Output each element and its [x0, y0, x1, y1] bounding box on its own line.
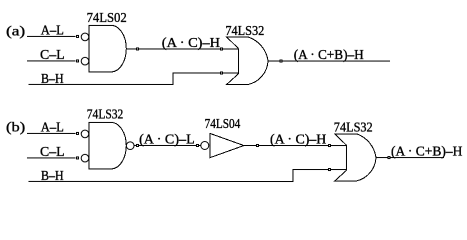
wire U5 output (b) — [376, 156, 444, 158]
pin node square A (a) — [76, 35, 78, 37]
pin node square OR input 2 (a) — [221, 72, 223, 74]
wire B input run (b) — [28, 169, 346, 181]
svg-text:(A · C)–H: (A · C)–H — [270, 133, 326, 148]
svg-text:(A · C+B)–H: (A · C+B)–H — [294, 48, 364, 63]
gate U5 OR body (b) — [335, 134, 376, 181]
gate U1 NOR as negative-AND body — [89, 25, 126, 72]
pin node square U5 input 1 — [328, 145, 330, 147]
pin node square C (a) — [76, 60, 78, 62]
svg-text:(A · C)–L: (A · C)–L — [139, 133, 195, 148]
pin node square U3 output — [136, 144, 138, 146]
wire U4 output to U5 (b) — [244, 145, 347, 147]
inverting bubble U3 output — [126, 142, 134, 150]
pin node square A (b) — [76, 132, 78, 134]
pin node square C (b) — [76, 157, 78, 159]
wire C input (a) — [27, 60, 76, 62]
svg-text:(b): (b) — [6, 121, 26, 136]
wire B input run (a) — [29, 73, 239, 85]
inverting bubble A input U3 — [81, 130, 89, 138]
gate U2 OR body (a) — [227, 37, 268, 84]
wire U1 output to U2 (a) — [126, 48, 238, 50]
pin node square U4 input — [196, 144, 198, 146]
inverting bubble C input U3 — [81, 154, 89, 162]
gate U4 inverter triangle — [210, 133, 244, 157]
svg-text:74LS32: 74LS32 — [87, 107, 124, 122]
inverting bubble C input U1a — [81, 57, 89, 65]
svg-text:(a): (a) — [6, 25, 26, 40]
svg-text:74LS32: 74LS32 — [334, 120, 373, 135]
wire C input (b) — [27, 157, 76, 159]
svg-text:74LS02: 74LS02 — [87, 11, 127, 26]
svg-text:(A · C)–H: (A · C)–H — [162, 36, 220, 51]
inverting bubble A input U1a — [81, 33, 89, 41]
pin node square U2 input 1 (a) — [221, 48, 223, 50]
wire U3 output to U4 (b) — [134, 144, 201, 146]
svg-text:74LS04: 74LS04 — [205, 117, 241, 132]
gate U3 OR as negative-AND body — [89, 122, 126, 169]
pin node square U1 output (a) — [136, 48, 138, 50]
pin node square U5 input 2 (b) — [328, 168, 330, 170]
wire A input (b) — [27, 132, 76, 134]
pin node square U4 output — [256, 145, 258, 147]
pin node square U5 output — [388, 156, 390, 158]
svg-text:74LS32: 74LS32 — [225, 24, 264, 39]
wire U2 output (a) — [268, 60, 390, 62]
svg-text:(A · C+B)–H: (A · C+B)–H — [391, 145, 462, 160]
pin node square U2 output (a) — [280, 60, 282, 62]
inverting bubble U4 input — [201, 141, 209, 149]
wire A input (a) — [27, 35, 76, 37]
